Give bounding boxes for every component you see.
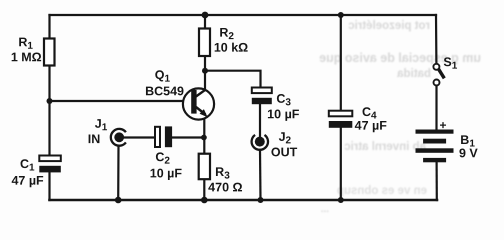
wire C4 top bbox=[340, 15, 342, 111]
jack J1 bbox=[111, 129, 126, 146]
svg-text:C2: C2 bbox=[155, 150, 170, 167]
wire base from node to Q1 bbox=[50, 100, 192, 102]
node at J1 ground bbox=[115, 197, 122, 204]
svg-text:1 MΩ: 1 MΩ bbox=[11, 50, 42, 64]
svg-text:J2: J2 bbox=[279, 130, 292, 147]
svg-text:470 Ω: 470 Ω bbox=[208, 180, 242, 194]
wire battery to bottom rail bbox=[436, 162, 438, 200]
wire J2 to ground bbox=[259, 150, 262, 200]
wire R3 to ground bbox=[203, 179, 205, 200]
wire J1 to ground bbox=[117, 146, 120, 200]
ghost bleed-through text low bbox=[306, 141, 426, 153]
svg-text:+: + bbox=[439, 118, 446, 132]
svg-text:10 µF: 10 µF bbox=[267, 107, 300, 121]
svg-text:C1: C1 bbox=[20, 157, 35, 174]
node at C4 ground bbox=[338, 197, 344, 203]
svg-text:C3: C3 bbox=[276, 92, 291, 109]
svg-text:R3: R3 bbox=[215, 165, 230, 182]
node at R2 top rail bbox=[202, 12, 209, 19]
svg-text:47 µF: 47 µF bbox=[11, 174, 44, 188]
ghost bleed-through text mid2 bbox=[387, 68, 431, 80]
resistor R2 bbox=[199, 29, 210, 57]
wire emitter vertical bbox=[203, 118, 205, 153]
ghost bleed-through small mark bbox=[315, 204, 329, 215]
switch S1 bbox=[433, 64, 444, 86]
wire left vertical bottom bbox=[48, 172, 50, 200]
transistor Q1 bbox=[183, 88, 214, 119]
wire R2 top bbox=[204, 15, 206, 29]
svg-text:IN: IN bbox=[88, 132, 101, 146]
resistor R3 bbox=[199, 154, 210, 180]
wire collector vertical bbox=[204, 71, 206, 90]
wire bottom rail bbox=[50, 199, 438, 202]
node at R1 bottom / base bbox=[47, 98, 53, 104]
wire right vertical to switch bbox=[435, 15, 438, 64]
svg-text:S1: S1 bbox=[443, 55, 457, 72]
wire top rail bbox=[50, 14, 437, 16]
wire left vertical mid bbox=[48, 65, 50, 156]
svg-text:R2: R2 bbox=[219, 26, 234, 43]
wire C4 bottom bbox=[340, 128, 342, 200]
ghost bleed-through text mid bbox=[290, 51, 481, 65]
capacitor C4 bbox=[329, 111, 353, 128]
node at C2 / emitter bbox=[201, 135, 207, 141]
capacitor C2 bbox=[155, 126, 172, 147]
svg-text:10 kΩ: 10 kΩ bbox=[214, 41, 248, 55]
resistor R1 bbox=[44, 39, 55, 66]
battery B1 bbox=[416, 130, 454, 163]
svg-text:10 µF: 10 µF bbox=[150, 166, 183, 180]
ghost bleed-through text bottom bbox=[297, 185, 427, 197]
wire left vertical top bbox=[48, 15, 50, 39]
capacitor C3 bbox=[252, 88, 272, 105]
wire J1 to C2 bbox=[124, 136, 154, 138]
svg-text:Q1: Q1 bbox=[155, 68, 171, 85]
wire R2 bottom to collector node bbox=[204, 56, 206, 71]
svg-text:9 V: 9 V bbox=[459, 146, 478, 160]
ghost bleed-through text top bbox=[330, 20, 430, 32]
wire C3 to J2 bbox=[259, 104, 261, 137]
svg-text:BC549: BC549 bbox=[145, 84, 184, 98]
svg-text:47 µF: 47 µF bbox=[355, 119, 388, 133]
svg-text:OUT: OUT bbox=[271, 145, 298, 159]
jack J2 bbox=[252, 135, 268, 150]
node at J2 ground bbox=[258, 197, 264, 203]
node at collector / C3 bbox=[202, 68, 208, 74]
wire switch to battery bbox=[435, 85, 437, 129]
svg-text:J1: J1 bbox=[95, 117, 108, 134]
capacitor C1 bbox=[39, 156, 61, 173]
node at R3 ground bbox=[201, 197, 208, 204]
node at C4 top rail bbox=[338, 12, 344, 18]
wire node to C3 horizontal bbox=[205, 71, 261, 88]
wire C2 to emitter node bbox=[172, 136, 204, 138]
